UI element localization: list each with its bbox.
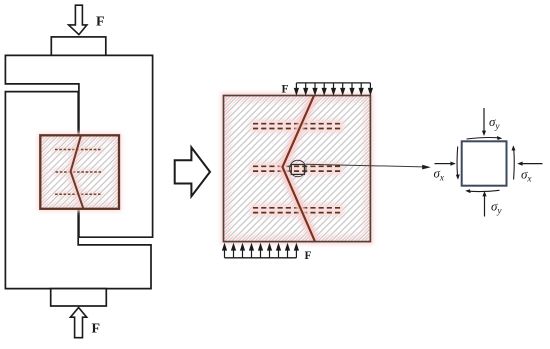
shear arrow left edge — [456, 147, 459, 176]
distributed load bottom bar (middle) — [225, 257, 297, 259]
shear arrow right edge — [513, 150, 516, 180]
damage row 2 (left specimen) — [56, 171, 102, 173]
damage row 3 (left specimen) — [55, 193, 101, 195]
big block arrow (left to middle) — [175, 147, 210, 196]
shear crack (left specimen) — [71, 135, 84, 209]
sigma-x left arrow — [435, 163, 451, 165]
damage band 1 upper dashes (middle) — [253, 123, 341, 125]
top force arrow F (hollow block arrow, left fixture) — [69, 5, 87, 34]
damage row 1 (left specimen) — [55, 149, 101, 151]
specimen border (left) — [40, 135, 119, 209]
damage row 3 glow (left specimen) — [55, 192, 101, 197]
svg-text:F: F — [305, 250, 312, 262]
distributed load top arrows (middle) — [295, 83, 373, 94]
upper grip block — [5, 55, 152, 237]
damage band 3 glow (middle) — [250, 205, 344, 216]
middle square glow — [224, 96, 371, 242]
svg-text:F: F — [96, 15, 105, 30]
shear arrow top edge — [467, 137, 500, 139]
damage band 3 lower dashes (middle) — [253, 212, 341, 214]
leader arrowhead — [422, 165, 431, 170]
detail element tiny square — [291, 165, 304, 175]
damage band 1 lower dashes (middle) — [253, 128, 341, 130]
damage band 3 upper dashes (middle) — [253, 207, 341, 209]
damage band 2 glow (middle) — [250, 163, 344, 174]
distributed load top bar (middle) — [296, 82, 370, 84]
damage row 2 glow (left specimen) — [56, 170, 102, 175]
detail circle — [290, 160, 306, 176]
sigma-y top arrow — [483, 108, 485, 131]
sigma-x right arrow — [523, 163, 543, 165]
svg-text:F: F — [92, 322, 101, 337]
sigma-y bottom arrow — [484, 196, 486, 217]
specimen body (left) — [40, 135, 119, 209]
specimen glow (left) — [40, 135, 119, 209]
crack glow (left specimen) — [71, 135, 84, 209]
damage band 1 glow (middle) — [250, 121, 344, 132]
distributed load bottom arrows (middle) — [223, 245, 299, 258]
middle square border — [224, 96, 371, 242]
damage band 2 upper dashes (middle) — [253, 165, 341, 167]
upper platen — [51, 37, 106, 56]
damage band 2 lower dashes (middle) — [253, 170, 341, 172]
svg-text:F: F — [282, 84, 289, 96]
shear crack (middle) — [283, 96, 316, 242]
leader line to stress element — [306, 164, 423, 167]
middle square body — [224, 96, 371, 242]
stress element square — [462, 141, 507, 185]
shear arrow bottom edge — [469, 190, 500, 191]
bottom force arrow F (hollow block arrow up) — [70, 308, 86, 338]
lower platen — [51, 289, 107, 306]
damage row 1 glow (left specimen) — [55, 147, 101, 152]
lower grip block — [5, 92, 151, 289]
crack glow (middle) — [283, 96, 316, 242]
